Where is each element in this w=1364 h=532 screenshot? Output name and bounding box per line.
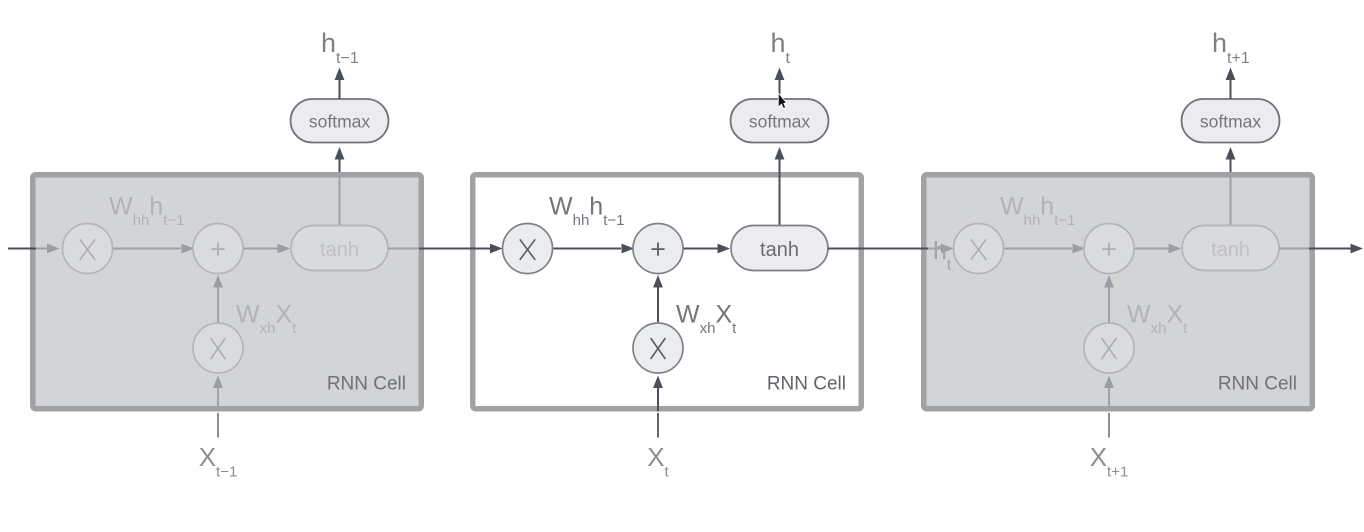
wire middle tanh to right X, label h_t <box>828 248 928 250</box>
multiply node X (input) (left, t-1) <box>193 323 243 373</box>
wire tanh top up to box top (middle, t) <box>779 172 781 226</box>
multiply node X (input) (right, t+1) <box>1084 323 1134 373</box>
wire tanh top up to box top (right, t+1) <box>1230 172 1232 226</box>
multiply node X (recurrent) (right, t+1) <box>954 224 1004 274</box>
wire X-circle to plus-circle (middle, t) <box>553 248 622 250</box>
wire plus-circle to tanh (middle, t) <box>683 248 719 250</box>
wire right tanh to output edge <box>1279 248 1309 250</box>
wire X-circle to plus-circle (left, t-1) <box>113 248 182 250</box>
wire softmax to h output (right, t+1) <box>1230 80 1232 99</box>
svg-text:softmax: softmax <box>749 112 811 132</box>
svg-text:softmax: softmax <box>1200 112 1262 132</box>
RNN cell box (middle, t) <box>473 175 862 409</box>
wire box top to softmax (middle, t) <box>779 160 781 173</box>
multiply node X (recurrent) (middle, t) <box>503 224 553 274</box>
input wire below box (middle, t) <box>657 413 659 438</box>
svg-text:softmax: softmax <box>309 112 371 132</box>
wire box top to softmax (right, t+1) <box>1230 160 1232 173</box>
softmax box (left, t-1) <box>291 99 389 143</box>
wire lower-X up to plus-circle (right, t+1) <box>1108 287 1110 323</box>
add node + (middle, t) <box>633 224 683 274</box>
wire bottom input into lower-X (left, t-1) <box>217 387 219 412</box>
svg-text:tanh: tanh <box>760 239 799 261</box>
input wire below box (right, t+1) <box>1108 413 1110 438</box>
input wire below box (left, t-1) <box>217 413 219 438</box>
wire bottom input into lower-X (right, t+1) <box>1108 387 1110 412</box>
arrowhead into tanh (left, t-1) <box>278 244 291 254</box>
svg-text:RNN Cell: RNN Cell <box>767 374 846 395</box>
arrowhead into plus-circle (middle, t) <box>622 244 635 254</box>
wire softmax to h output (left, t-1) <box>339 80 341 99</box>
wire input into left cell <box>8 248 36 250</box>
tanh activation box (right, t+1) <box>1182 226 1279 271</box>
mouse cursor <box>778 93 786 109</box>
wire box top to softmax (left, t-1) <box>339 160 341 173</box>
wire lower-X up to plus-circle (left, t-1) <box>217 287 219 323</box>
softmax box (right, t+1) <box>1182 99 1280 143</box>
svg-text:tanh: tanh <box>1211 239 1250 261</box>
wire plus-circle to tanh (left, t-1) <box>243 248 279 250</box>
wire lower-X up to plus-circle (middle, t) <box>657 287 659 323</box>
wire tanh top up to box top (left, t-1) <box>339 172 341 226</box>
wire softmax to h output (middle, t) <box>779 80 781 99</box>
wire X-circle to plus-circle (right, t+1) <box>1004 248 1073 250</box>
softmax box (middle, t) <box>731 99 829 143</box>
wire bottom input into lower-X (middle, t) <box>657 387 659 412</box>
add node + (right, t+1) <box>1084 224 1134 274</box>
RNN cell box (left, t-1) <box>33 175 422 409</box>
wire left tanh to middle X <box>388 248 419 250</box>
arrowhead into tanh (right, t+1) <box>1169 244 1182 254</box>
tanh activation box (left, t-1) <box>291 226 388 271</box>
add node + (left, t-1) <box>193 224 243 274</box>
multiply node X (recurrent) (left, t-1) <box>63 224 113 274</box>
multiply node X (input) (middle, t) <box>633 323 683 373</box>
svg-text:tanh: tanh <box>320 239 359 261</box>
arrowhead into tanh (middle, t) <box>718 244 731 254</box>
RNN cell box (right, t+1) <box>924 175 1313 409</box>
arrowhead into plus-circle (right, t+1) <box>1073 244 1086 254</box>
arrowhead into plus-circle (left, t-1) <box>182 244 195 254</box>
svg-text:RNN Cell: RNN Cell <box>1218 374 1297 395</box>
wire plus-circle to tanh (right, t+1) <box>1134 248 1170 250</box>
tanh activation box (middle, t) <box>731 226 828 271</box>
svg-text:RNN Cell: RNN Cell <box>327 374 406 395</box>
